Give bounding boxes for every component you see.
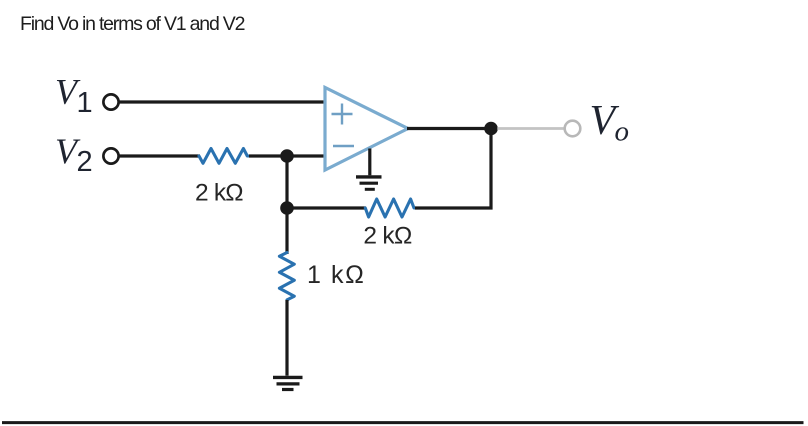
wire resistor R1 to op-amp inverting input (249, 154, 326, 157)
terminal Vo (565, 121, 581, 137)
label Vo (590, 98, 630, 148)
svg-text:2 kΩ: 2 kΩ (363, 222, 412, 249)
svg-text:2: 2 (77, 146, 93, 178)
resistor R1 2 kOhm (series input) (199, 149, 250, 164)
bottom rule (2, 421, 804, 424)
wire op-amp reference to ground (368, 149, 371, 176)
node B junction (280, 201, 294, 215)
label V1 (55, 72, 93, 119)
wire resistor R2 to output node (415, 127, 491, 208)
resistor R3 1 kOhm (279, 253, 294, 302)
wire op-amp output to output node (407, 127, 492, 130)
svg-text:2 kΩ: 2 kΩ (195, 180, 243, 207)
svg-text:Find Vo in terms of V1 and V2: Find Vo in terms of V1 and V2 (20, 13, 245, 35)
node A junction (280, 149, 294, 163)
op-amp minus input marking (333, 145, 354, 147)
resistor R2 2 kOhm (feedback) (365, 199, 416, 217)
svg-text:1: 1 (77, 87, 93, 119)
svg-text:o: o (615, 116, 630, 148)
ground (bottom, below R3) (273, 377, 303, 389)
op-amp U1 (325, 88, 408, 171)
wire node B down to resistor R3 (285, 208, 288, 254)
output node junction (484, 122, 498, 136)
label V2 (55, 131, 93, 178)
wire V1 to op-amp noninverting input (119, 100, 326, 103)
wire node B to resistor R2 (287, 206, 366, 209)
wire output node to terminal Vo (497, 127, 564, 130)
wire V2 to resistor R1 (119, 154, 200, 157)
terminal V2 (103, 148, 118, 163)
wire resistor R3 to ground (285, 300, 288, 376)
terminal V1 (103, 94, 118, 109)
wire node A down to node B (285, 156, 288, 208)
svg-text:1 kΩ: 1 kΩ (307, 261, 365, 289)
op-amp plus input marking (332, 104, 353, 125)
ground (op-amp reference) (356, 177, 382, 189)
